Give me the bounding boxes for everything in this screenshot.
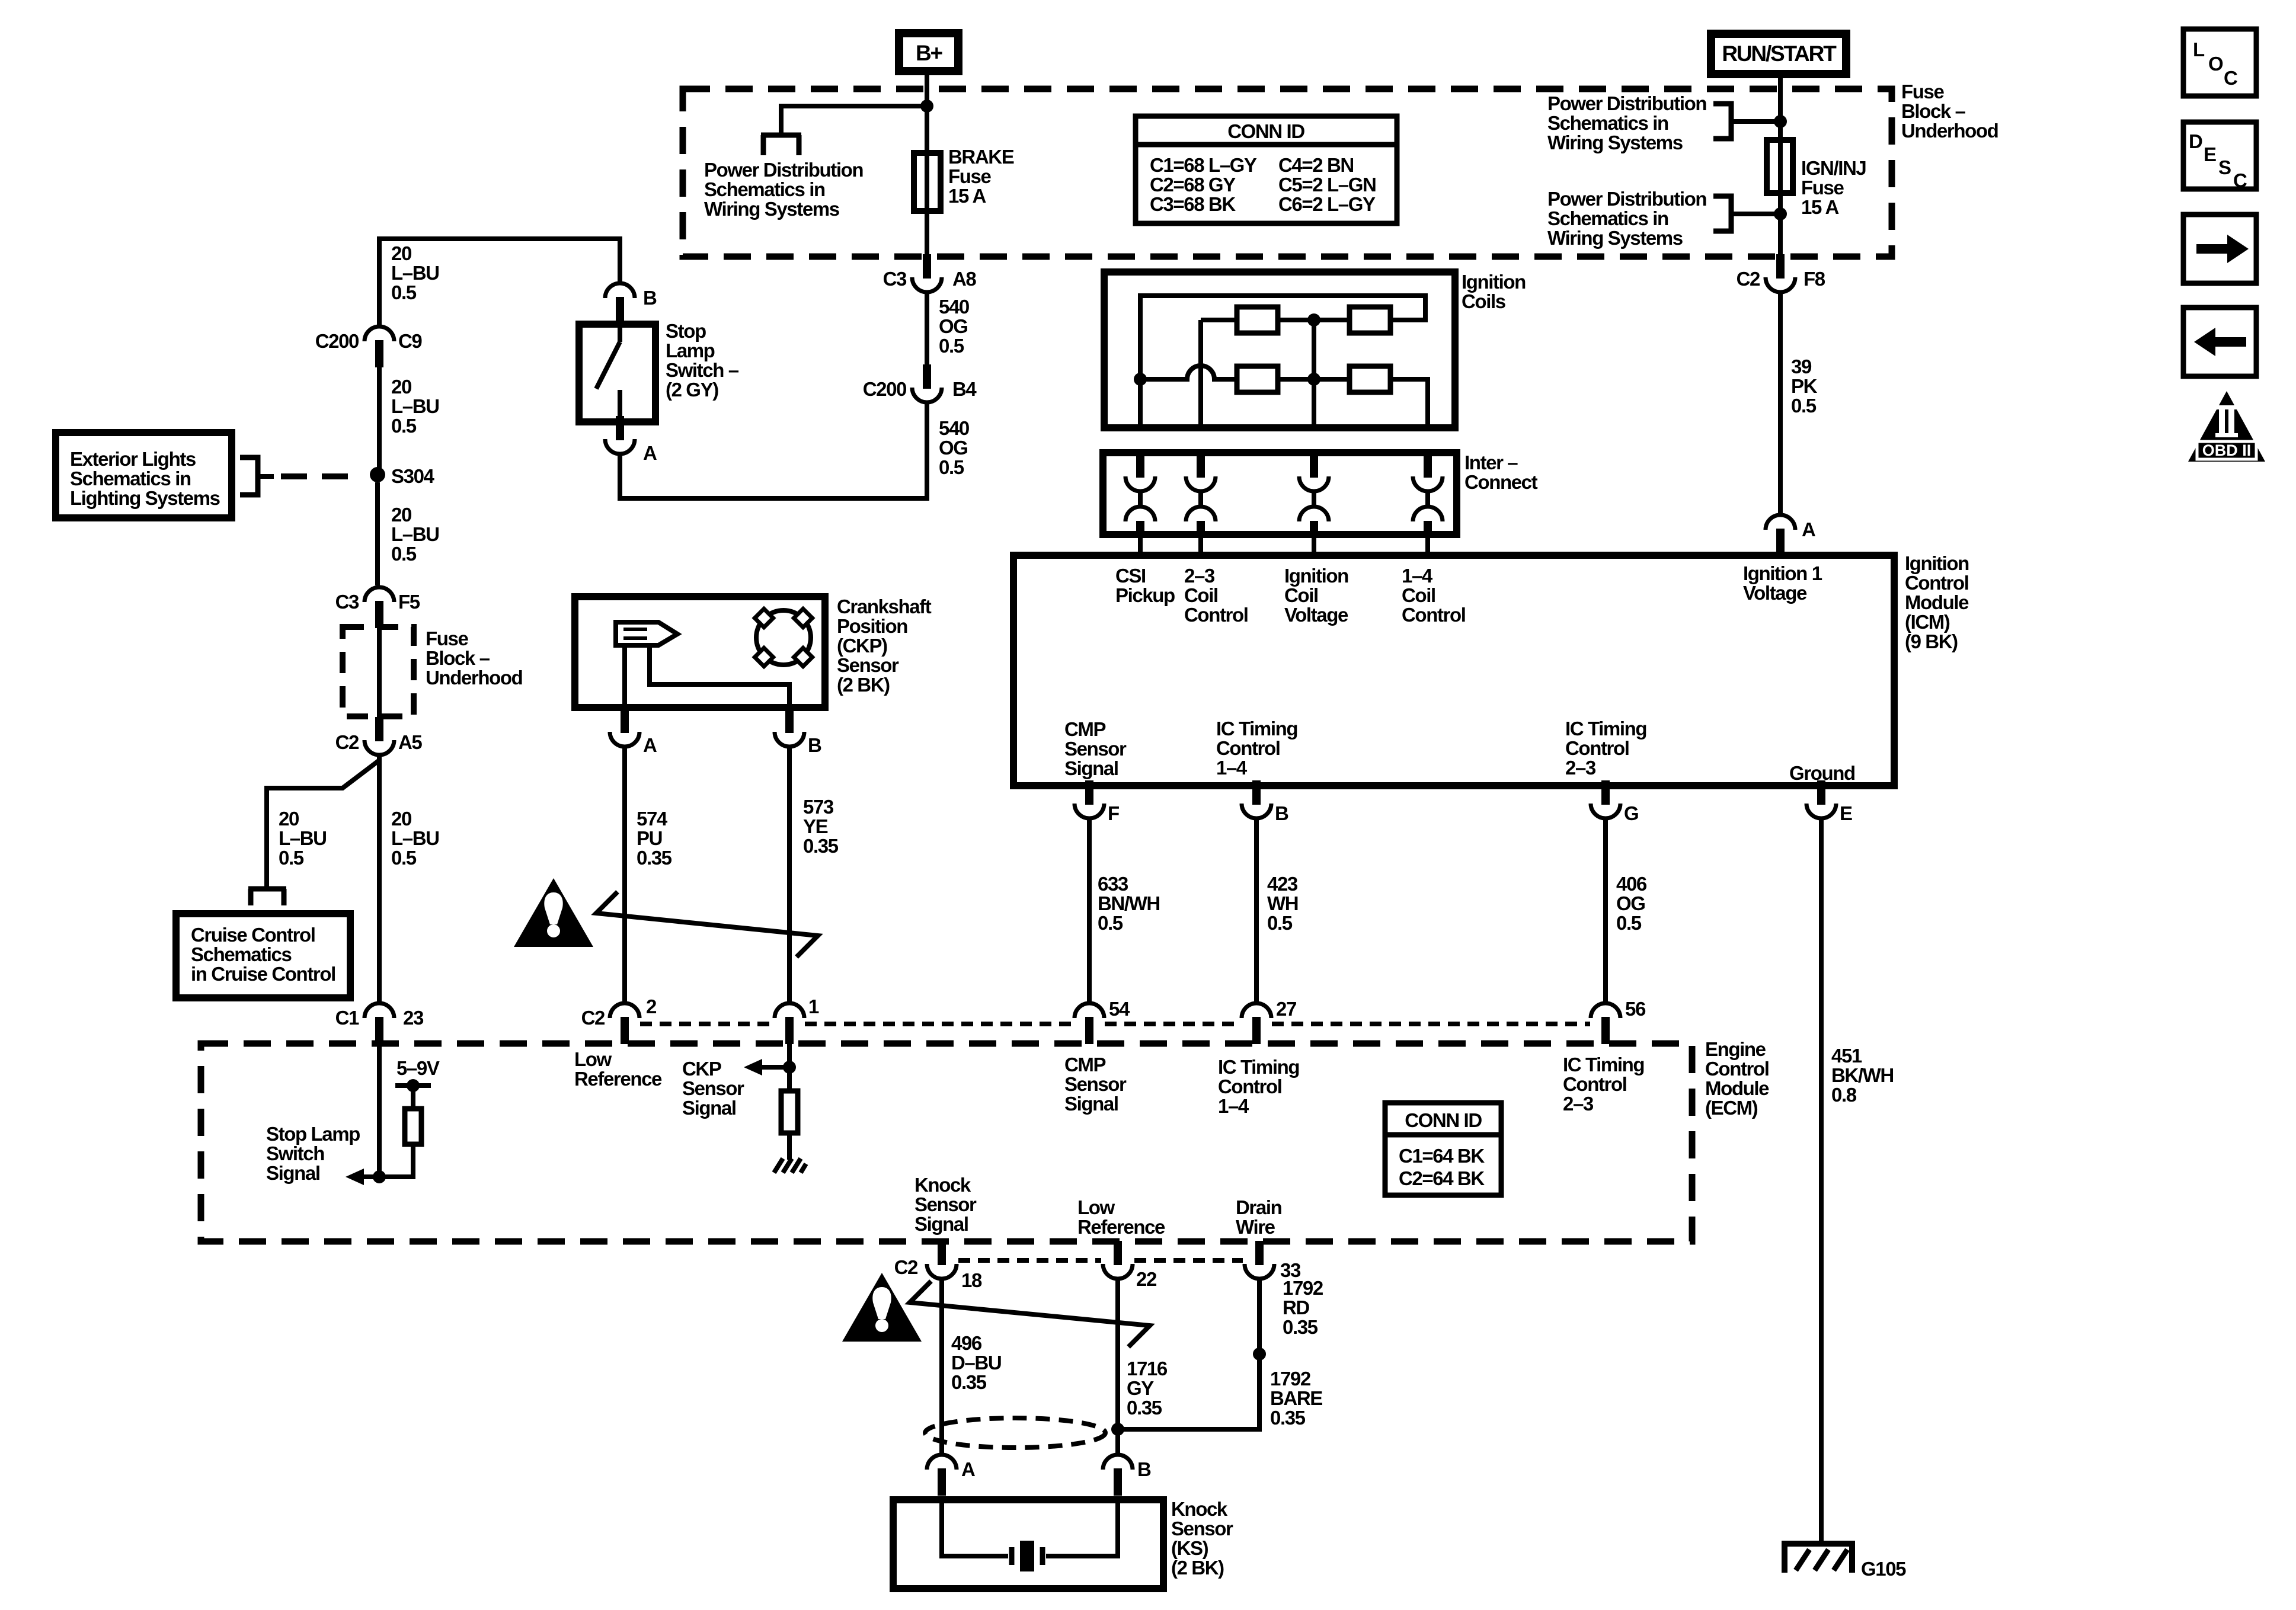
junction dot ign feed lower — [1774, 207, 1787, 220]
svg-text:0.5: 0.5 — [391, 847, 417, 869]
connector C2 2 (ECM) — [610, 1003, 639, 1044]
arrow CKP sensor signal — [744, 1059, 762, 1076]
svg-text:Wiring Systems: Wiring Systems — [1547, 227, 1683, 249]
svg-text:Drain: Drain — [1236, 1196, 1282, 1218]
connector A (stop lamp switch) — [605, 416, 635, 454]
wire B+ feed — [925, 71, 929, 259]
svg-text:Ignition 1: Ignition 1 — [1743, 562, 1822, 584]
svg-text:C2: C2 — [335, 731, 359, 753]
arrow stop lamp switch signal — [346, 1169, 364, 1185]
svg-text:Lamp: Lamp — [666, 340, 715, 361]
svg-text:2–3: 2–3 — [1184, 565, 1215, 587]
svg-text:0.5: 0.5 — [391, 415, 417, 437]
svg-text:YE: YE — [803, 815, 828, 837]
svg-text:BK/WH: BK/WH — [1831, 1064, 1894, 1086]
svg-text:L–BU: L–BU — [391, 262, 439, 284]
svg-text:RUN/START: RUN/START — [1722, 41, 1837, 66]
svg-text:Fuse: Fuse — [1901, 81, 1944, 103]
svg-text:Schematics in: Schematics in — [1547, 207, 1668, 229]
svg-text:Module: Module — [1905, 591, 1969, 613]
svg-text:B: B — [643, 287, 657, 309]
connector C200 C9 — [364, 327, 394, 367]
splice S304 — [370, 467, 385, 482]
svg-text:Underhood: Underhood — [426, 667, 522, 689]
twisted pair slash (CKP) — [596, 892, 818, 957]
svg-text:O: O — [2208, 53, 2223, 75]
junction dot ign feed upper — [1774, 115, 1787, 128]
svg-text:Coils: Coils — [1462, 290, 1505, 312]
svg-text:Underhood: Underhood — [1901, 120, 1998, 142]
dashed box: fuse block underhood (top) — [683, 89, 1892, 257]
svg-text:A5: A5 — [398, 731, 422, 753]
svg-text:Low: Low — [574, 1048, 612, 1070]
svg-text:1–4: 1–4 — [1402, 565, 1433, 587]
svg-text:Fuse: Fuse — [948, 165, 991, 187]
warning triangle (CKP) — [514, 878, 593, 947]
svg-text:5–9V: 5–9V — [396, 1057, 440, 1079]
svg-text:CSI: CSI — [1115, 565, 1146, 587]
DESC legend box — [2183, 122, 2256, 189]
connector C3 F5 — [364, 587, 394, 628]
svg-text:BARE: BARE — [1270, 1387, 1322, 1409]
svg-text:C3: C3 — [335, 591, 359, 613]
connector C3 A8 — [912, 254, 942, 292]
svg-text:Connect: Connect — [1464, 471, 1538, 493]
connector 1 (ECM) — [775, 1003, 804, 1044]
wire CSI through box — [1138, 379, 1143, 428]
svg-text:0.5: 0.5 — [1098, 912, 1123, 934]
svg-text:Signal: Signal — [1064, 1093, 1118, 1115]
junction dot coils left — [1134, 373, 1147, 386]
svg-text:Control: Control — [1705, 1058, 1769, 1080]
off-page bracket (power distribution left) — [761, 133, 801, 138]
svg-text:C1=68 L–GY: C1=68 L–GY — [1150, 154, 1257, 176]
dotted conn line row1 — [640, 1022, 774, 1026]
wire 423 WH — [1254, 818, 1259, 1003]
OBD II triangle — [2188, 391, 2265, 462]
junction dot stop lamp signal — [373, 1170, 386, 1183]
switch contact bottom — [618, 390, 622, 422]
wire 406 OG — [1603, 818, 1608, 1003]
svg-text:0.5: 0.5 — [391, 281, 417, 303]
wire 574 PU — [622, 746, 627, 1003]
svg-text:Signal: Signal — [1064, 757, 1118, 779]
svg-text:(CKP): (CKP) — [837, 635, 887, 657]
wire 20 L-BU to C3 F5 — [375, 482, 380, 585]
wire 1716 GY — [1115, 1278, 1120, 1454]
svg-text:Control: Control — [1905, 572, 1969, 594]
svg-text:633: 633 — [1098, 873, 1128, 895]
wire interconnect to ICM — [1138, 532, 1143, 557]
svg-text:IC Timing: IC Timing — [1565, 718, 1646, 740]
twisted pair slash (knock) — [910, 1281, 1150, 1347]
resistor (stop lamp pull-up) — [405, 1109, 421, 1144]
bracket upper right — [1713, 104, 1731, 139]
coils inner loop — [1140, 296, 1425, 379]
knock sensor box — [893, 1500, 1163, 1589]
svg-text:Stop Lamp: Stop Lamp — [266, 1123, 360, 1145]
svg-text:C3: C3 — [883, 268, 907, 290]
svg-text:CONN ID: CONN ID — [1227, 120, 1304, 142]
svg-text:Wiring Systems: Wiring Systems — [1547, 132, 1683, 153]
svg-text:IC Timing: IC Timing — [1216, 718, 1297, 740]
svg-text:Switch –: Switch – — [666, 359, 739, 381]
svg-text:Power Distribution: Power Distribution — [1547, 92, 1706, 114]
svg-text:CMP: CMP — [1064, 1054, 1106, 1076]
svg-text:20: 20 — [391, 242, 411, 264]
reluctor wheel symbol — [756, 610, 811, 665]
svg-text:Engine: Engine — [1705, 1038, 1766, 1060]
svg-text:1–4: 1–4 — [1216, 757, 1248, 779]
svg-text:Switch: Switch — [266, 1142, 324, 1164]
svg-text:(ECM): (ECM) — [1705, 1097, 1758, 1119]
svg-text:IC Timing: IC Timing — [1563, 1054, 1644, 1076]
svg-text:RD: RD — [1283, 1297, 1309, 1318]
svg-text:F: F — [1108, 802, 1119, 824]
svg-text:(2 BK): (2 BK) — [837, 674, 890, 696]
svg-text:L–BU: L–BU — [391, 523, 439, 545]
svg-text:E: E — [2204, 143, 2216, 165]
svg-text:C2=64 BK: C2=64 BK — [1399, 1167, 1485, 1189]
svg-text:CMP: CMP — [1064, 718, 1106, 740]
svg-text:0.35: 0.35 — [1270, 1407, 1306, 1429]
svg-text:Signal: Signal — [682, 1097, 736, 1119]
svg-text:PK: PK — [1791, 375, 1818, 397]
svg-text:C1: C1 — [335, 1007, 359, 1029]
connector 56 (ECM top) — [1591, 1003, 1620, 1044]
wire 20 L-BU to S304 — [377, 367, 382, 468]
svg-text:Wiring Systems: Wiring Systems — [704, 198, 839, 220]
svg-text:15 A: 15 A — [948, 185, 986, 207]
interconnect pair x=1924 — [1125, 454, 1155, 536]
svg-text:Fuse: Fuse — [1801, 177, 1844, 199]
coil 1-4 primary top — [1350, 307, 1390, 333]
svg-text:B: B — [808, 734, 821, 756]
connector 22 (ECM bottom) — [1103, 1241, 1133, 1279]
svg-text:Control: Control — [1565, 737, 1629, 759]
svg-text:2–3: 2–3 — [1565, 757, 1596, 779]
svg-text:Control: Control — [1563, 1073, 1627, 1095]
svg-text:Block –: Block – — [1901, 100, 1966, 122]
svg-text:Sensor: Sensor — [914, 1193, 977, 1215]
svg-text:Position: Position — [837, 615, 907, 637]
svg-text:Sensor: Sensor — [682, 1077, 744, 1099]
svg-text:F8: F8 — [1803, 268, 1825, 290]
coil 2-3 secondary bottom — [1237, 366, 1278, 392]
svg-text:L–BU: L–BU — [391, 827, 439, 849]
svg-text:Ignition: Ignition — [1284, 565, 1348, 587]
svg-text:B+: B+ — [916, 41, 943, 65]
connector B (stop lamp switch) — [605, 283, 635, 324]
LOC legend box — [2183, 29, 2256, 96]
svg-text:Voltage: Voltage — [1284, 604, 1348, 626]
wire 633 BN/WH — [1087, 818, 1092, 1003]
junction dot B+ branch — [920, 100, 933, 113]
wire coil voltage through box — [1312, 379, 1316, 428]
svg-text:C6=2 L–GY: C6=2 L–GY — [1278, 193, 1376, 215]
svg-text:Voltage: Voltage — [1743, 582, 1807, 604]
svg-text:0.5: 0.5 — [1616, 912, 1642, 934]
svg-text:0.35: 0.35 — [637, 847, 672, 869]
svg-text:B: B — [1137, 1458, 1151, 1480]
connector C2 A5 — [364, 717, 394, 755]
wire C1-23 into ECM — [377, 1044, 382, 1177]
svg-text:Signal: Signal — [914, 1213, 968, 1235]
junction dot drain to low ref — [1111, 1423, 1124, 1436]
svg-text:IC Timing: IC Timing — [1218, 1056, 1299, 1078]
wire interconnect to ICM — [1312, 532, 1316, 557]
junction dot CKP signal — [783, 1061, 796, 1074]
wire 540 OG upper segment — [925, 292, 929, 366]
svg-text:S304: S304 — [391, 465, 435, 487]
svg-text:451: 451 — [1831, 1045, 1862, 1067]
svg-text:A: A — [961, 1458, 975, 1480]
svg-text:(KS): (KS) — [1171, 1537, 1208, 1559]
svg-text:22: 22 — [1136, 1268, 1157, 1290]
svg-text:18: 18 — [961, 1269, 982, 1291]
back arrow box — [2183, 308, 2256, 376]
svg-text:540: 540 — [939, 296, 969, 318]
svg-text:Control: Control — [1216, 737, 1280, 759]
KS internal wire left — [942, 1500, 1008, 1556]
svg-text:Signal: Signal — [266, 1162, 320, 1184]
svg-text:27: 27 — [1276, 998, 1296, 1020]
svg-text:G: G — [1624, 802, 1638, 824]
svg-text:Ignition: Ignition — [1905, 552, 1969, 574]
svg-text:CONN ID: CONN ID — [1405, 1109, 1482, 1131]
svg-text:Coil: Coil — [1184, 584, 1218, 606]
warning triangle (knock) — [842, 1273, 922, 1342]
connector B (knock sensor) — [1103, 1455, 1133, 1496]
CKP internal wire to A — [622, 645, 627, 708]
svg-text:WH: WH — [1267, 892, 1298, 914]
svg-text:A: A — [1802, 518, 1815, 540]
svg-text:(9 BK): (9 BK) — [1905, 630, 1958, 652]
interconnect pair x=2409 — [1413, 454, 1443, 536]
svg-text:Sensor: Sensor — [1064, 738, 1127, 760]
svg-text:56: 56 — [1625, 998, 1646, 1020]
connector G (ICM bottom) — [1591, 780, 1620, 818]
svg-text:B4: B4 — [952, 378, 977, 400]
junction dot drain splice — [1253, 1347, 1266, 1361]
KS internal wire right — [1046, 1500, 1118, 1556]
svg-text:0.5: 0.5 — [1267, 912, 1293, 934]
wire pin1 into ECM — [787, 1044, 792, 1067]
wire 540 OG lower segment — [620, 402, 927, 498]
svg-text:IGN/INJ: IGN/INJ — [1801, 157, 1866, 179]
cruise control reference box — [176, 914, 350, 998]
wire 2-3 control through box — [1198, 320, 1203, 428]
svg-text:C2: C2 — [894, 1256, 918, 1278]
bracket cruise control — [248, 886, 286, 892]
svg-text:Power Distribution: Power Distribution — [1547, 188, 1706, 210]
connector E (ICM bottom) — [1806, 780, 1836, 818]
svg-text:Ignition: Ignition — [1462, 271, 1526, 293]
pull-up supply bar — [395, 1083, 431, 1088]
svg-text:L: L — [2193, 39, 2205, 60]
svg-text:0.35: 0.35 — [803, 835, 839, 857]
crank symbol — [616, 622, 677, 645]
svg-text:0.5: 0.5 — [939, 456, 964, 478]
svg-text:C4=2 BN: C4=2 BN — [1278, 154, 1354, 176]
svg-text:Coil: Coil — [1284, 584, 1318, 606]
svg-text:1792: 1792 — [1270, 1368, 1311, 1390]
wire interconnect to ICM — [1198, 532, 1203, 557]
connector 33 (ECM bottom) — [1245, 1241, 1274, 1279]
svg-text:2: 2 — [646, 996, 657, 1017]
svg-text:0.5: 0.5 — [279, 847, 304, 869]
svg-text:Sensor: Sensor — [1064, 1073, 1127, 1095]
svg-text:Reference: Reference — [1077, 1216, 1165, 1238]
connector B (ICM bottom) — [1242, 780, 1271, 818]
svg-text:CKP: CKP — [682, 1058, 721, 1080]
svg-text:496: 496 — [951, 1332, 982, 1354]
svg-text:OG: OG — [1616, 892, 1645, 914]
dotted conn line row2 — [958, 1258, 1101, 1263]
svg-text:Block –: Block – — [426, 647, 490, 669]
wire pin2 to coil — [1201, 318, 1237, 322]
wire 451 BK/WH — [1819, 818, 1824, 1543]
stop lamp switch box — [579, 324, 655, 422]
svg-text:Low: Low — [1077, 1196, 1115, 1218]
svg-text:406: 406 — [1616, 873, 1647, 895]
CONN ID table (top) — [1136, 116, 1397, 223]
svg-text:OBD II: OBD II — [2202, 441, 2252, 459]
svg-text:20: 20 — [391, 504, 411, 526]
svg-text:A: A — [643, 442, 657, 464]
svg-text:OG: OG — [939, 437, 968, 459]
svg-text:Reference: Reference — [574, 1068, 662, 1090]
ground G105 — [1785, 1544, 1852, 1573]
junction dot coils top — [1307, 313, 1320, 327]
svg-text:20: 20 — [391, 808, 411, 830]
svg-text:Schematics in: Schematics in — [1547, 112, 1668, 134]
switch fixed contact top — [618, 324, 622, 342]
wire coil row top mid — [1278, 318, 1350, 322]
wire 573 YE — [787, 746, 792, 1003]
wire 1792 drain — [1118, 1278, 1259, 1429]
svg-text:L–BU: L–BU — [279, 827, 327, 849]
power box B+ — [899, 33, 958, 71]
connector A (CKP) — [610, 709, 639, 747]
svg-text:GY: GY — [1127, 1377, 1154, 1399]
svg-text:Lighting Systems: Lighting Systems — [70, 487, 220, 509]
svg-text:1716: 1716 — [1127, 1358, 1168, 1379]
svg-text:0.35: 0.35 — [1127, 1397, 1162, 1419]
ICM box — [1013, 555, 1894, 786]
bracket lower right — [1713, 196, 1731, 231]
svg-text:L–BU: L–BU — [391, 395, 439, 417]
svg-text:Fuse: Fuse — [426, 628, 468, 649]
svg-text:Control: Control — [1184, 604, 1248, 626]
wire 20 L-BU to C1 23 — [377, 754, 382, 1003]
dashed link to S304 — [281, 473, 362, 479]
svg-text:PU: PU — [637, 827, 662, 849]
svg-text:423: 423 — [1267, 873, 1298, 895]
svg-text:Cruise Control: Cruise Control — [191, 924, 315, 946]
piezo element — [1009, 1547, 1015, 1565]
svg-text:Stop: Stop — [666, 320, 706, 342]
svg-text:Inter –: Inter – — [1464, 452, 1518, 473]
svg-text:Schematics in: Schematics in — [70, 468, 191, 489]
svg-text:F5: F5 — [398, 591, 420, 613]
wire 39 PK — [1778, 292, 1783, 513]
svg-text:Crankshaft: Crankshaft — [837, 596, 932, 617]
CKP sensor box — [575, 597, 825, 708]
connector C2 18 (ECM bottom) — [927, 1241, 957, 1279]
connector 54 (ECM top) — [1075, 1003, 1104, 1044]
svg-text:Module: Module — [1705, 1077, 1769, 1099]
connector A (knock sensor) — [927, 1455, 957, 1496]
svg-text:G105: G105 — [1861, 1558, 1906, 1580]
junction dot coils bottom — [1307, 373, 1320, 386]
switch blade — [596, 342, 620, 389]
svg-text:S: S — [2218, 156, 2231, 178]
wire branch to cruise control — [267, 760, 379, 888]
wire 496 D-BU — [939, 1278, 944, 1454]
svg-text:Schematics in: Schematics in — [704, 178, 825, 200]
svg-text:23: 23 — [403, 1007, 424, 1029]
wire hop over pin2 — [1140, 366, 1237, 379]
svg-text:(ICM): (ICM) — [1905, 611, 1950, 633]
svg-text:C2: C2 — [581, 1007, 605, 1029]
fuse BRAKE 15A — [914, 153, 941, 211]
svg-text:C3=68 BK: C3=68 BK — [1150, 193, 1236, 215]
svg-text:Power Distribution: Power Distribution — [704, 159, 863, 181]
connector C2 F8 — [1766, 254, 1795, 292]
connector 27 (ECM top) — [1242, 1003, 1271, 1044]
svg-text:C200: C200 — [315, 330, 359, 352]
wire interconnect to ICM — [1425, 532, 1430, 557]
svg-text:D–BU: D–BU — [951, 1352, 1001, 1374]
wire branch to power distribution — [781, 106, 927, 133]
ignition coils box — [1104, 272, 1455, 428]
interconnect box — [1103, 453, 1457, 534]
fuse IGN/INJ 15A — [1767, 140, 1793, 193]
wire RUN/START feed — [1778, 71, 1783, 259]
svg-text:BN/WH: BN/WH — [1098, 892, 1160, 914]
CONN ID table (ECM) — [1385, 1103, 1501, 1195]
svg-text:574: 574 — [637, 808, 668, 830]
svg-text:D: D — [2189, 130, 2202, 152]
connector C1 23 — [364, 1003, 394, 1044]
shield ellipse — [925, 1418, 1105, 1448]
svg-text:C: C — [2233, 169, 2247, 191]
svg-text:E: E — [1840, 802, 1852, 824]
svg-text:2–3: 2–3 — [1563, 1093, 1594, 1115]
svg-text:54: 54 — [1109, 998, 1130, 1020]
svg-text:540: 540 — [939, 417, 969, 439]
svg-text:1–4: 1–4 — [1218, 1095, 1249, 1117]
svg-text:1792: 1792 — [1283, 1277, 1323, 1299]
svg-text:0.5: 0.5 — [391, 543, 417, 565]
svg-text:C9: C9 — [398, 330, 422, 352]
svg-text:(2 GY): (2 GY) — [666, 379, 718, 401]
svg-text:0.5: 0.5 — [1791, 395, 1817, 417]
svg-text:20: 20 — [279, 808, 299, 830]
svg-text:C: C — [2224, 67, 2237, 89]
svg-text:Control: Control — [1218, 1076, 1282, 1097]
interconnect pair x=2217 — [1299, 454, 1329, 536]
svg-text:15 A: 15 A — [1801, 196, 1838, 218]
power box RUN/START — [1711, 34, 1846, 74]
ECM dashed box — [201, 1044, 1692, 1241]
svg-text:(2 BK): (2 BK) — [1171, 1557, 1224, 1579]
svg-text:Knock: Knock — [914, 1174, 971, 1196]
ground (ECM internal) — [774, 1158, 783, 1173]
svg-text:OG: OG — [939, 315, 968, 337]
svg-text:39: 39 — [1791, 356, 1812, 377]
